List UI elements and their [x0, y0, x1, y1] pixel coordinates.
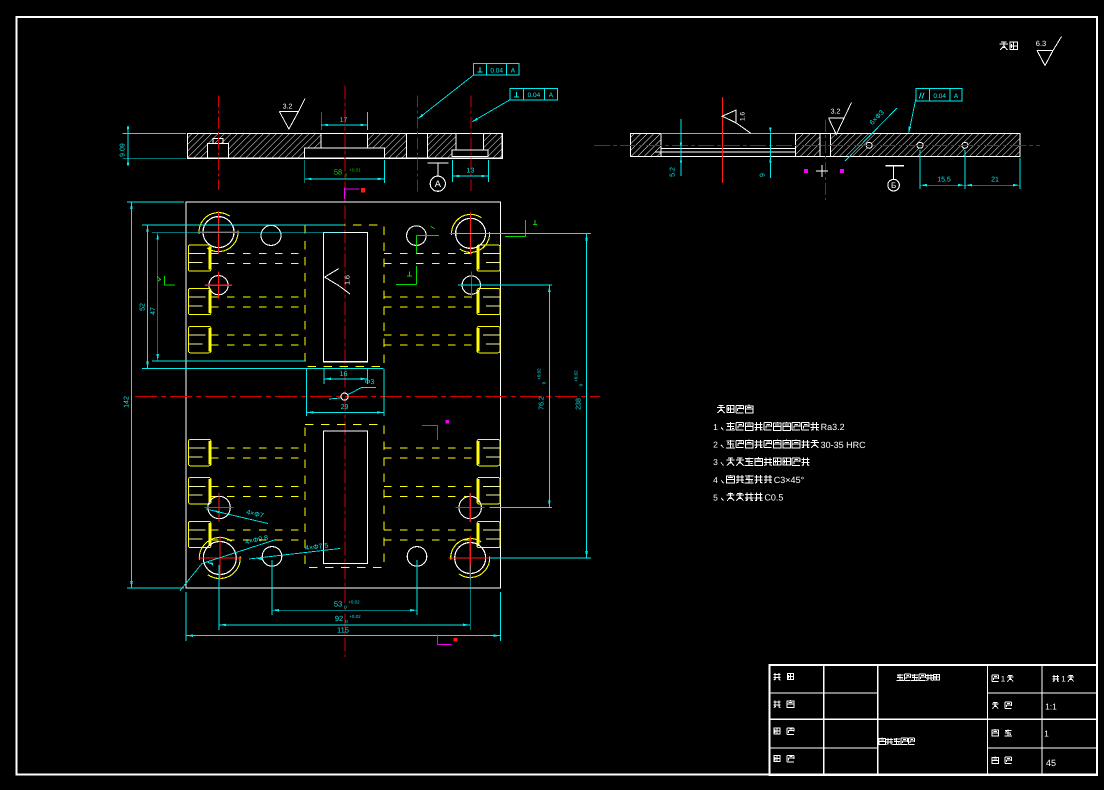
svg-text:1: 1 — [1061, 675, 1066, 684]
hidden lines pair left 5 — [211, 485, 305, 487]
green mark outside right — [505, 220, 525, 237]
dimension 115 — [186, 635, 501, 637]
green mark center-right — [396, 266, 416, 285]
core slot upper white outline — [324, 232, 368, 361]
svg-text:30-35 HRC: 30-35 HRC — [821, 440, 867, 450]
guide hole bottom-right — [449, 537, 491, 579]
dimension 53 +0.02 — [272, 609, 417, 611]
roughness 1.6 on recess wall — [722, 110, 751, 133]
svg-text:+0.02: +0.02 — [537, 368, 542, 380]
dimension 53 extension lines — [271, 560, 273, 615]
ejector slot left 6 — [188, 521, 211, 547]
svg-text:76.2: 76.2 — [539, 396, 546, 410]
dimension 17 above center slot — [320, 112, 322, 130]
pin hole mid-right upper — [462, 276, 480, 294]
section A-A center slot upper — [321, 134, 367, 149]
svg-text:C0.5: C0.5 — [764, 493, 783, 503]
svg-text:0.04: 0.04 — [490, 67, 503, 74]
dimension 47 — [157, 233, 159, 361]
svg-text:Φ3: Φ3 — [365, 379, 375, 386]
centerline hole axis left — [218, 95, 220, 190]
tolerance frame perpendicular 0.04 A lower — [510, 89, 558, 100]
hidden lines pair right 1 — [384, 253, 476, 255]
dimension 9.09 left of section — [123, 133, 186, 135]
svg-text:A: A — [549, 92, 554, 99]
svg-text:3.2: 3.2 — [831, 109, 841, 116]
dimension 238 extension lines — [453, 232, 592, 234]
dimension 142 extension lines — [127, 201, 184, 203]
svg-text:29: 29 — [341, 404, 349, 411]
svg-text:92: 92 — [335, 614, 343, 623]
ejector slot left 3 — [188, 327, 211, 353]
svg-text:9: 9 — [760, 173, 767, 177]
dimension 5.2 under recess — [680, 119, 682, 176]
dimension 13 right slot — [451, 160, 453, 182]
dimension 9 plate thickness — [769, 134, 771, 179]
svg-text:+0.01: +0.01 — [349, 168, 361, 173]
ejector slot left 4 — [188, 440, 211, 466]
svg-text:C3×45°: C3×45° — [774, 475, 805, 485]
dimension 238 +0.02 — [586, 233, 588, 558]
svg-text:A: A — [511, 67, 516, 74]
centerline main vertical axis — [344, 85, 346, 657]
title block label quantity — [992, 729, 998, 736]
screw hole top-right small — [407, 226, 427, 246]
title block column lines — [823, 665, 825, 775]
title block sheet no — [1052, 675, 1059, 682]
hole 2 in section B-B — [917, 142, 923, 148]
section B-B recess bottom strip — [655, 134, 796, 157]
svg-text:4: 4 — [713, 475, 718, 485]
svg-text:1.6: 1.6 — [345, 275, 352, 285]
svg-text:0.04: 0.04 — [933, 93, 946, 100]
hole 1 in section B-B — [866, 142, 872, 148]
ejector slot right 4 — [477, 440, 500, 466]
section A-A right slot lower wide — [452, 150, 488, 157]
ejector slot right 2 — [477, 288, 500, 314]
note others roughness — [1000, 42, 1018, 51]
dimension 92 extension lines — [218, 565, 220, 630]
svg-text:1: 1 — [1044, 729, 1049, 739]
dimension 76.2 extension lines — [458, 284, 552, 286]
ejector slot left 1 — [188, 245, 211, 271]
center mark with grips on section B-B — [816, 165, 828, 177]
svg-text:5: 5 — [713, 492, 718, 502]
section A-A left counterbore block — [207, 143, 228, 158]
svg-text:1.6: 1.6 — [740, 112, 747, 121]
ejector slot left 2 — [188, 288, 211, 314]
svg-text:53: 53 — [334, 600, 342, 609]
svg-text:58: 58 — [334, 168, 342, 177]
svg-text:2: 2 — [713, 440, 718, 450]
hidden lines pair left 3 — [211, 334, 305, 336]
center hole dia3 — [341, 393, 348, 400]
dimension 52 — [147, 225, 149, 368]
roughness 1.6 in core slot — [325, 269, 350, 294]
svg-text:52: 52 — [140, 303, 147, 311]
hidden lines pair right 6 — [384, 529, 476, 531]
dimension 16 slot width — [323, 368, 325, 384]
section B-B horizontal centerline — [594, 144, 1040, 146]
section A-A hole strip walls — [406, 134, 427, 159]
svg-text:6.3: 6.3 — [1036, 39, 1046, 48]
svg-text:142: 142 — [124, 396, 131, 408]
svg-text:13: 13 — [467, 168, 475, 175]
svg-text:16: 16 — [340, 371, 348, 378]
svg-text:9.09: 9.09 — [120, 143, 127, 157]
ejector slot right 1 — [477, 245, 500, 271]
callout 6x dia3 leader — [845, 108, 897, 161]
leader to axis from upper tolerance frame — [419, 75, 474, 118]
title block label material — [992, 757, 998, 764]
svg-text:0.04: 0.04 — [528, 92, 541, 99]
title block label design — [773, 673, 780, 680]
title block sheets total — [992, 675, 998, 681]
svg-text:17: 17 — [340, 117, 348, 124]
dimension 92 +0.02 — [219, 624, 470, 626]
hole 3 in section B-B — [962, 142, 968, 148]
guide hole top-left — [197, 211, 239, 253]
svg-text:21: 21 — [991, 177, 999, 184]
svg-text:15.5: 15.5 — [937, 177, 951, 184]
roughness symbol 6.3 top-right — [1037, 37, 1062, 66]
section A-A center slot lower wide — [305, 148, 385, 158]
dimension 15.5 between holes — [919, 150, 921, 189]
leader from parallel frame to plate — [909, 98, 916, 132]
svg-text:A: A — [435, 179, 442, 190]
hidden lines pair right 3 — [384, 334, 476, 336]
dimension 47 extension lines — [152, 232, 344, 234]
hidden lines pair left 1 — [211, 253, 305, 255]
magenta mark bottom — [438, 635, 452, 645]
screw hole bottom-left small — [262, 547, 282, 567]
dimension 29 hidden profile width — [305, 369, 307, 416]
hidden lines pair left 2 — [211, 296, 305, 298]
pin hole mid-left upper — [209, 276, 228, 295]
leader to axis from lower tolerance frame — [473, 100, 510, 122]
section B-B mid wall lines — [796, 134, 831, 157]
hole callout 4x dia9.8 — [180, 540, 276, 591]
plan view horizontal centerline — [135, 396, 600, 398]
dimension 76.2 +0.02 — [548, 285, 550, 507]
section A-A plate outline — [187, 134, 502, 159]
datum feature A symbol — [428, 162, 449, 164]
title block label review — [774, 756, 780, 762]
section A-A right slot upper — [456, 134, 484, 150]
title block label date — [774, 728, 780, 734]
technical requirements heading — [717, 405, 753, 413]
ejector slot right 5 — [477, 478, 500, 504]
ejector slot right 3 — [477, 327, 500, 353]
pin hole mid-left lower — [208, 496, 230, 518]
section B-B vertical axis center — [824, 120, 826, 200]
title block label scale — [992, 702, 999, 709]
screw hole top-left small — [261, 225, 281, 245]
title block label draft — [773, 700, 780, 707]
section B-B plate outline — [631, 134, 1020, 157]
hole callout 4x dia7 — [206, 509, 268, 524]
title block outer border — [769, 665, 1097, 775]
hidden lines pair right 4 — [384, 447, 476, 449]
hidden lines pair right 2 — [384, 296, 476, 298]
dimension 52 extension lines — [142, 224, 344, 226]
title block row lines — [769, 718, 1097, 720]
guide hole bottom-left — [198, 536, 242, 580]
datum feature B symbol — [885, 165, 903, 167]
ejector slot right 6 — [477, 521, 500, 547]
svg-text:238: 238 — [576, 398, 583, 410]
dimension 58 +0.01 below boss — [304, 160, 306, 183]
dimension 21 hole to edge — [1019, 158, 1021, 189]
green mark left — [165, 276, 175, 285]
hidden profile lower yellow dashed — [305, 424, 384, 567]
svg-text:+0.02: +0.02 — [349, 614, 361, 619]
hidden lines pair right 5 — [384, 485, 476, 487]
svg-text:3.2: 3.2 — [283, 104, 293, 111]
plan view plate outline — [186, 202, 501, 588]
svg-text:Б: Б — [891, 181, 896, 190]
guide hole top-right — [450, 213, 491, 254]
section B-B vertical axis left — [721, 97, 723, 183]
section B-B cyan overlay recess — [661, 133, 796, 135]
hidden profile upper yellow dashed — [305, 225, 384, 366]
ejector slot left 5 — [188, 478, 211, 504]
tolerance frame perpendicular 0.04 A upper — [474, 64, 519, 75]
centerline hole axis mid-right — [416, 95, 418, 192]
svg-text:47: 47 — [150, 307, 157, 315]
surface roughness 3.2 on section A-A — [279, 99, 305, 130]
centerline hole axis right — [470, 95, 472, 191]
hole callout 4x dia7.5 — [249, 549, 340, 560]
dimension 142 — [131, 202, 133, 588]
magenta mark mid-right — [422, 425, 438, 439]
magenta mark below section A-A — [345, 188, 360, 200]
svg-text:115: 115 — [337, 626, 349, 635]
svg-text:A: A — [954, 93, 959, 100]
core slot lower white outline — [324, 431, 368, 563]
surface roughness 3.2 on section B-B — [829, 103, 852, 135]
screw hole bottom-right small — [407, 547, 427, 567]
dimension 115 extension lines — [185, 592, 187, 641]
section B-B hatching — [631, 134, 1020, 157]
title block part name — [879, 738, 915, 745]
svg-text:1: 1 — [713, 422, 718, 432]
svg-text:Ra3.2: Ra3.2 — [821, 422, 845, 432]
svg-text:+0.02: +0.02 — [574, 370, 579, 382]
pin hole mid-right lower — [459, 496, 481, 518]
hidden lines pair left 6 — [211, 529, 305, 531]
tolerance frame parallel 0.04 A — [916, 89, 962, 102]
svg-text:+0.02: +0.02 — [348, 600, 360, 605]
svg-text:5.2: 5.2 — [670, 167, 677, 177]
hidden lines pair left 4 — [211, 447, 305, 449]
svg-text:45: 45 — [1046, 758, 1056, 768]
svg-text:3: 3 — [713, 457, 718, 467]
section A-A plate hatching — [187, 134, 502, 159]
svg-text:1: 1 — [1001, 675, 1006, 684]
green mark at small hole top-right — [416, 236, 439, 254]
title block project name — [897, 674, 940, 681]
leader dia3 center hole — [329, 387, 376, 399]
svg-text:1:1: 1:1 — [1045, 702, 1057, 712]
